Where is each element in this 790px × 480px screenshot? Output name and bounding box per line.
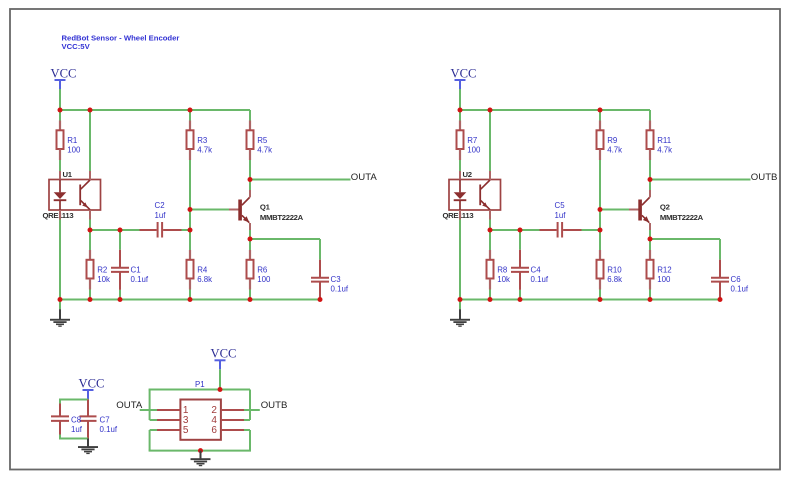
LED inside U1: [54, 171, 67, 220]
svg-text:MMBT2222A: MMBT2222A: [260, 213, 304, 222]
wire: [649, 290, 651, 300]
wire: [649, 239, 651, 250]
wire pin5 lead: [150, 429, 157, 431]
svg-text:1uf: 1uf: [555, 211, 567, 220]
wire: [489, 290, 491, 300]
svg-text:5: 5: [183, 425, 189, 436]
svg-text:OUTB: OUTB: [751, 172, 778, 183]
wire mid: [90, 229, 140, 231]
svg-text:OUTA: OUTA: [116, 400, 143, 411]
capacitor C2: [140, 201, 182, 237]
wire bottom rail: [60, 299, 320, 301]
junction: [718, 297, 723, 302]
junction: [118, 228, 123, 233]
wire: [249, 239, 251, 250]
wire: [250, 238, 320, 240]
junction: [458, 108, 463, 113]
svg-text:P1: P1: [195, 380, 205, 389]
svg-text:R9: R9: [607, 136, 618, 145]
wire: [59, 399, 88, 401]
junction: [598, 108, 603, 113]
capacitor C5: [540, 201, 582, 237]
wire: [319, 239, 321, 260]
junction: [248, 237, 253, 242]
wire base: [600, 209, 639, 211]
svg-text:6: 6: [211, 425, 217, 436]
wire: [59, 220, 61, 300]
capacitor C7: [80, 400, 97, 439]
capacitor C1: [111, 250, 149, 290]
junction: [598, 207, 603, 212]
svg-text:Q1: Q1: [260, 203, 271, 212]
svg-text:C4: C4: [531, 265, 542, 274]
wire OUTA lead: [140, 409, 157, 411]
wire: [649, 160, 651, 180]
svg-text:MMBT2222A: MMBT2222A: [660, 213, 704, 222]
resistor R2: [87, 250, 110, 290]
wire: [649, 230, 651, 239]
wire: [599, 230, 601, 250]
svg-text:U1: U1: [63, 170, 73, 179]
svg-text:OUTB: OUTB: [261, 400, 288, 411]
junction: [248, 177, 253, 182]
resistor R5: [247, 121, 273, 161]
wire: [59, 400, 61, 404]
wire: [89, 110, 91, 171]
wire: [459, 110, 461, 121]
wire pin2 lead: [244, 409, 260, 411]
wire left loop top: [149, 390, 151, 421]
capacitor C3: [311, 260, 349, 300]
wire P1 top rail: [149, 389, 250, 391]
wire: [249, 230, 251, 239]
junction: [648, 237, 653, 242]
junction: [58, 108, 63, 113]
resistor R4: [187, 250, 213, 290]
wire: [189, 290, 191, 300]
resistor R7: [457, 121, 481, 161]
ground: [191, 451, 211, 467]
wire: [189, 230, 191, 250]
wire: [189, 210, 191, 231]
svg-text:OUTA: OUTA: [351, 172, 378, 183]
svg-text:6.8k: 6.8k: [197, 275, 212, 284]
wire: [119, 230, 121, 250]
wire: [59, 160, 61, 171]
junction: [188, 297, 193, 302]
junction: [488, 108, 493, 113]
wire right loop top: [249, 390, 251, 421]
svg-text:C3: C3: [331, 275, 342, 284]
wire: [719, 239, 721, 260]
svg-text:R8: R8: [497, 265, 508, 274]
junction: [518, 297, 523, 302]
svg-text:R10: R10: [607, 265, 622, 274]
ground: [78, 439, 98, 455]
svg-text:4.7k: 4.7k: [607, 146, 622, 155]
junction: [88, 228, 93, 233]
wire: [59, 435, 61, 439]
svg-text:0.1uf: 0.1uf: [331, 285, 349, 294]
junction: [188, 207, 193, 212]
svg-text:QRE1113: QRE1113: [443, 211, 474, 220]
wire: [89, 220, 91, 231]
resistor R8: [487, 250, 510, 290]
resistor R1: [57, 121, 81, 161]
transistor Q2 MMBT2222A: [629, 190, 704, 230]
wire: [59, 438, 88, 440]
svg-text:VCC: VCC: [51, 66, 77, 80]
svg-text:R1: R1: [67, 136, 77, 145]
svg-text:1uf: 1uf: [155, 211, 167, 220]
wire: [249, 290, 251, 300]
junction GND-P1: [198, 448, 203, 453]
supply VCC VCC3: [79, 376, 105, 399]
wire: [189, 110, 191, 121]
wire: [489, 230, 491, 250]
wire: [489, 110, 491, 171]
svg-text:10k: 10k: [497, 275, 510, 284]
svg-text:10k: 10k: [97, 275, 110, 284]
svg-text:R6: R6: [257, 265, 268, 274]
supply VCC VCC: [51, 66, 77, 89]
svg-text:C2: C2: [155, 201, 165, 210]
resistor R3: [187, 121, 213, 161]
wire pin6 lead: [244, 429, 250, 431]
svg-text:1uf: 1uf: [71, 425, 83, 434]
wire: [649, 110, 651, 121]
wire mid: [490, 229, 540, 231]
svg-text:R7: R7: [467, 136, 477, 145]
wire: [582, 229, 601, 231]
junction: [598, 297, 603, 302]
resistor R11: [647, 121, 673, 161]
opto-coupler U2 QRE1113: [443, 170, 501, 220]
svg-text:R12: R12: [657, 265, 671, 274]
wire VCC stem: [459, 89, 461, 110]
svg-text:0.1uf: 0.1uf: [731, 285, 749, 294]
wire: [519, 290, 521, 300]
capacitor C6: [711, 260, 749, 300]
wire pin4 lead: [244, 419, 250, 421]
junction: [248, 297, 253, 302]
ground: [450, 300, 470, 327]
wire: [459, 160, 461, 171]
wire VCC stem: [59, 89, 61, 110]
wire: [87, 398, 89, 401]
wire net OUTB: [650, 179, 751, 181]
svg-text:C1: C1: [131, 265, 141, 274]
svg-text:VCC: VCC: [451, 66, 477, 80]
wire: [249, 110, 251, 121]
junction: [118, 297, 123, 302]
phototransistor inside U2: [480, 171, 490, 220]
wire: [650, 238, 720, 240]
title text: [62, 33, 180, 51]
phototransistor inside U1: [80, 171, 90, 220]
svg-text:C7: C7: [100, 415, 110, 424]
wire: [119, 290, 121, 300]
svg-text:R2: R2: [97, 265, 107, 274]
wire top rail: [459, 109, 650, 111]
svg-text:RedBot Sensor - Wheel Encoder: RedBot Sensor - Wheel Encoder: [62, 33, 180, 42]
junction: [58, 297, 63, 302]
svg-text:4.7k: 4.7k: [197, 146, 212, 155]
svg-text:R11: R11: [657, 136, 671, 145]
opto-coupler U1 QRE1113: [43, 170, 101, 220]
svg-text:R3: R3: [197, 136, 208, 145]
wire: [182, 229, 191, 231]
svg-text:6.8k: 6.8k: [607, 275, 622, 284]
wire: [249, 160, 251, 180]
svg-text:100: 100: [657, 275, 671, 284]
ground: [50, 300, 70, 327]
wire right loop bottom: [249, 430, 251, 451]
LED inside U2: [454, 171, 467, 220]
svg-text:C6: C6: [731, 275, 742, 284]
wire: [89, 290, 91, 300]
wire: [89, 230, 91, 250]
label C7: [100, 415, 118, 434]
wire net OUTA: [250, 179, 351, 181]
wire: [599, 110, 601, 121]
junction VCC-P1: [218, 387, 223, 392]
transistor Q1 MMBT2222A: [229, 190, 304, 230]
wire P1 bottom rail: [149, 450, 251, 452]
label C8: [71, 415, 83, 434]
junction: [88, 108, 93, 113]
svg-text:100: 100: [67, 146, 81, 155]
wire base: [190, 209, 229, 211]
wire: [189, 160, 191, 210]
wire: [599, 160, 601, 210]
wire: [649, 180, 651, 191]
connector P1: [157, 380, 244, 440]
wire: [459, 220, 461, 300]
supply VCC VCC: [451, 66, 477, 89]
svg-text:VCC:5V: VCC:5V: [62, 42, 91, 51]
svg-text:C5: C5: [555, 201, 566, 210]
resistor R9: [597, 121, 623, 161]
junction: [318, 297, 323, 302]
svg-text:4.7k: 4.7k: [657, 146, 672, 155]
junction: [488, 228, 493, 233]
resistor R10: [597, 250, 623, 290]
svg-text:100: 100: [257, 275, 271, 284]
junction: [488, 297, 493, 302]
wire pin3 lead: [150, 419, 157, 421]
wire: [249, 180, 251, 191]
capacitor C8: [51, 404, 69, 435]
junction: [188, 228, 193, 233]
junction: [458, 297, 463, 302]
svg-text:100: 100: [467, 146, 481, 155]
svg-text:R5: R5: [257, 136, 268, 145]
resistor R6: [247, 250, 271, 290]
svg-text:U2: U2: [463, 170, 472, 179]
svg-text:C8: C8: [71, 415, 82, 424]
supply VCC VCC4: [211, 347, 237, 370]
svg-text:QRE1113: QRE1113: [43, 211, 74, 220]
resistor R12: [647, 250, 672, 290]
wire: [599, 290, 601, 300]
wire: [489, 220, 491, 231]
junction: [88, 297, 93, 302]
svg-text:0.1uf: 0.1uf: [531, 275, 549, 284]
wire VCC to P1: [219, 369, 221, 389]
wire left loop bottom: [149, 430, 151, 451]
junction: [648, 297, 653, 302]
wire top rail: [59, 109, 250, 111]
wire: [519, 230, 521, 250]
junction: [598, 228, 603, 233]
svg-text:Q2: Q2: [660, 203, 670, 212]
svg-text:R4: R4: [197, 265, 208, 274]
svg-text:4.7k: 4.7k: [257, 146, 272, 155]
junction: [648, 177, 653, 182]
wire bottom rail: [460, 299, 720, 301]
svg-text:VCC: VCC: [211, 347, 237, 361]
svg-text:VCC: VCC: [79, 376, 105, 390]
svg-text:0.1uf: 0.1uf: [100, 425, 118, 434]
wire: [59, 110, 61, 121]
capacitor C4: [511, 250, 549, 290]
wire: [599, 210, 601, 231]
junction: [518, 228, 523, 233]
svg-text:0.1uf: 0.1uf: [131, 275, 149, 284]
junction: [188, 108, 193, 113]
